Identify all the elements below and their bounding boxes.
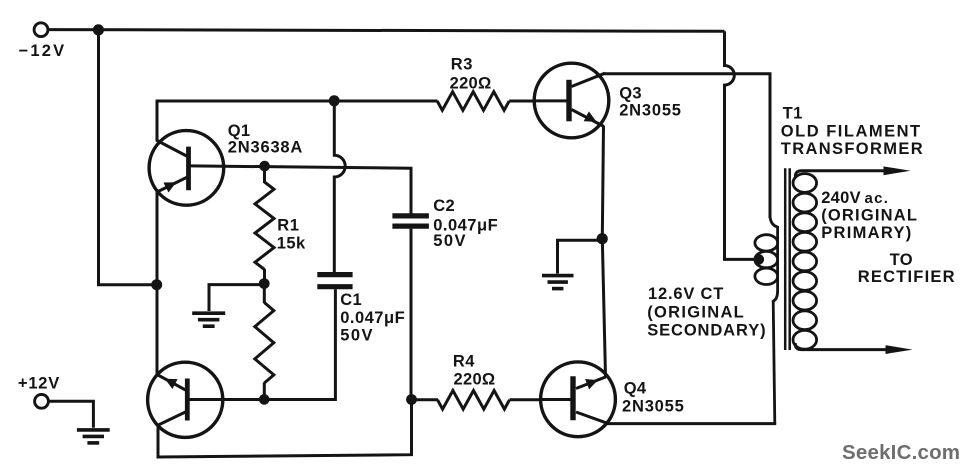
svg-text:OLD FILAMENT: OLD FILAMENT [781,122,922,140]
svg-text:R4: R4 [453,352,475,370]
svg-text:(ORIGINAL: (ORIGINAL [821,207,918,225]
svg-text:50V: 50V [340,327,374,345]
svg-text:2N3055: 2N3055 [622,398,685,416]
svg-text:(ORIGINAL: (ORIGINAL [647,304,745,322]
svg-text:+12V: +12V [18,375,60,393]
svg-text:220Ω: 220Ω [450,75,492,93]
svg-text:−12V: −12V [19,42,67,60]
svg-text:50V: 50V [433,232,467,250]
svg-text:TRANSFORMER: TRANSFORMER [781,140,924,158]
svg-text:TO: TO [890,251,913,269]
svg-text:240V: 240V [821,189,861,207]
svg-text:RECTIFIER: RECTIFIER [858,268,956,286]
svg-text:15k: 15k [277,234,306,252]
svg-text:ac.: ac. [865,190,890,207]
svg-text:PRIMARY): PRIMARY) [821,224,912,242]
svg-text:SeekIC.com: SeekIC.com [842,441,960,464]
svg-text:SECONDARY): SECONDARY) [647,321,766,339]
svg-text:12.6V CT: 12.6V CT [648,285,724,303]
svg-text:T1: T1 [783,105,803,123]
svg-text:2N3638A: 2N3638A [228,138,303,156]
svg-text:220Ω: 220Ω [454,370,496,388]
svg-text:C1: C1 [340,291,362,309]
svg-text:0.047μF: 0.047μF [340,309,405,327]
svg-text:Q3: Q3 [619,84,642,102]
svg-text:R1: R1 [277,217,299,235]
svg-text:Q1: Q1 [228,122,251,140]
svg-text:2N3055: 2N3055 [619,102,682,120]
svg-text:C2: C2 [433,197,455,215]
svg-text:Q4: Q4 [624,379,647,397]
svg-text:R3: R3 [451,56,473,74]
